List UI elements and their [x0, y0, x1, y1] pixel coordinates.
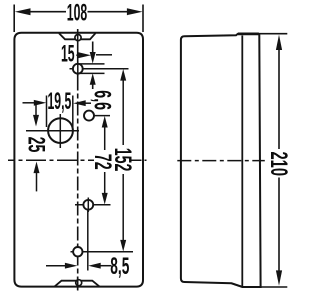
node dim-108	[14, 0, 143, 32]
node dim-19-5	[23, 88, 92, 128]
node sideview-bottom-step	[232, 283, 243, 287]
node dia-6-6-tangent-lines	[79, 63, 105, 65]
svg-text:108: 108	[67, 0, 88, 27]
node sideview-cap	[238, 33, 259, 36]
node frontview-body	[14, 33, 143, 287]
node top-tab	[59, 33, 96, 39]
svg-text:8,5: 8,5	[110, 253, 129, 280]
node dim-72	[89, 116, 116, 205]
svg-text:210: 210	[265, 152, 292, 177]
node bottom-tab	[55, 281, 100, 287]
node hole D	[71, 247, 134, 256]
node dim-210	[259, 34, 292, 287]
node hole A	[70, 62, 129, 77]
svg-text:15: 15	[61, 40, 75, 68]
svg-text:19,5: 19,5	[48, 88, 72, 116]
node big-hole-19-5	[26, 114, 79, 148]
node sideview-outline	[181, 34, 261, 287]
node vertical-centerline	[77, 29, 79, 77]
node dim-152	[109, 69, 136, 252]
node hole C	[75, 198, 111, 213]
svg-text:25: 25	[22, 137, 49, 153]
node dim-15	[61, 40, 112, 68]
svg-text:6,6: 6,6	[88, 90, 115, 110]
node top-tab-hole	[75, 35, 81, 41]
node horizontal-centerline-front	[8, 159, 94, 161]
node dim-8-5	[46, 210, 129, 280]
svg-text:152: 152	[109, 148, 136, 172]
node horizontal-centerline-side	[177, 160, 264, 162]
node dia-6-6-arrows	[90, 42, 96, 90]
node sideview-inner-line	[241, 36, 243, 287]
node dim-25	[22, 104, 49, 192]
node hole B	[84, 111, 111, 121]
node bottom-tab-hole	[76, 280, 82, 286]
